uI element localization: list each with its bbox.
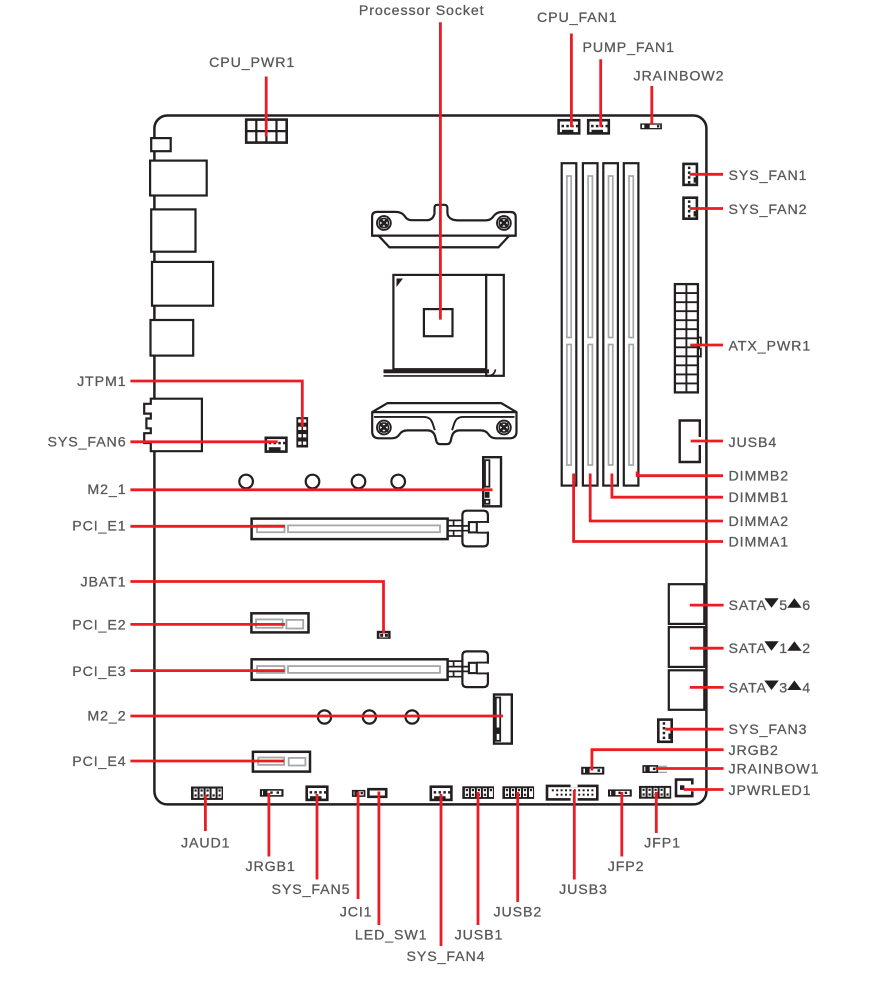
wire JBAT1 — [130, 582, 383, 634]
connector JUSB3 — [547, 784, 597, 801]
wire DIMMB2 — [637, 472, 723, 476]
svg-text:DIMMA1: DIMMA1 — [729, 535, 790, 551]
svg-text:CPU_FAN1: CPU_FAN1 — [537, 10, 618, 26]
wire SATA34 — [690, 686, 724, 689]
svg-text:PCI_E4: PCI_E4 — [72, 754, 126, 770]
PCI_E3 latch — [462, 651, 488, 687]
wire JAUD1 — [204, 795, 207, 831]
svg-text:JCI1: JCI1 — [340, 905, 373, 921]
connector JRAINBOW1 — [642, 765, 667, 773]
svg-text:2: 2 — [802, 641, 811, 657]
connector JPWRLED1 — [676, 780, 692, 797]
wire DIMMB1 — [612, 474, 723, 498]
svg-text:ATX_PWR1: ATX_PWR1 — [729, 338, 812, 354]
screw left (top bracket) — [377, 216, 391, 230]
svg-text:DIMMB1: DIMMB1 — [729, 490, 790, 506]
wire JRAINBOW1 — [656, 767, 724, 770]
svg-text:PCI_E1: PCI_E1 — [72, 519, 126, 535]
connector JFP2 — [608, 789, 632, 796]
cpu bottom bracket — [372, 403, 516, 444]
connector CPU_FAN1 — [559, 120, 580, 133]
svg-text:JUSB1: JUSB1 — [455, 927, 504, 943]
label SATA34 — [729, 680, 811, 696]
wire JRGB1 — [267, 793, 270, 857]
svg-text:JRAINBOW2: JRAINBOW2 — [634, 68, 725, 84]
svg-text:JUSB3: JUSB3 — [559, 882, 608, 898]
svg-text:JFP1: JFP1 — [644, 836, 681, 852]
svg-text:SYS_FAN3: SYS_FAN3 — [729, 722, 808, 738]
svg-text:PCI_E3: PCI_E3 — [72, 664, 126, 680]
label SATA56 — [729, 598, 811, 614]
connector JUSB2 — [502, 786, 534, 799]
socket bottom rail — [384, 369, 490, 373]
connector SYS_FAN6 — [266, 438, 287, 452]
io port small — [151, 138, 171, 151]
wire SYS_FAN6 — [130, 440, 277, 443]
svg-text:JRAINBOW1: JRAINBOW1 — [729, 762, 820, 778]
wire PCI_E3 — [130, 669, 284, 672]
wire SYS_FAN2 — [690, 207, 724, 210]
cpu socket — [384, 275, 504, 376]
svg-text:3: 3 — [779, 680, 788, 696]
connector JRGB1 — [260, 789, 284, 797]
svg-text:M2_1: M2_1 — [87, 482, 126, 498]
jumper JBAT1 — [377, 631, 391, 639]
wire JRAINBOW2 — [650, 86, 653, 125]
wire SYS_FAN1 — [690, 173, 724, 176]
svg-text:6: 6 — [802, 598, 811, 614]
DIMM slot DIMMB2 — [624, 163, 639, 485]
connector JUSB4 — [680, 421, 700, 463]
svg-text:PUMP_FAN1: PUMP_FAN1 — [583, 40, 675, 56]
wire Processor Socket — [439, 22, 442, 319]
wire SYS_FAN5 — [316, 794, 319, 880]
svg-text:JBAT1: JBAT1 — [80, 575, 126, 591]
svg-text:PCI_E2: PCI_E2 — [72, 617, 126, 633]
cpu top bracket — [372, 205, 516, 248]
wire PUMP_FAN1 — [599, 59, 602, 127]
svg-text:4: 4 — [802, 680, 811, 696]
screw right (top bracket) — [497, 216, 511, 230]
connector M2_2 — [494, 695, 512, 744]
io port lan — [150, 161, 207, 196]
connector SYS_FAN4 — [431, 787, 452, 800]
svg-text:DIMMB2: DIMMB2 — [729, 469, 790, 485]
wire SATA12 — [690, 647, 724, 650]
connector SYS_FAN2 — [684, 198, 698, 219]
connector JUSB1 — [462, 786, 494, 799]
DIMM slot DIMMB1 — [603, 163, 618, 485]
M2_1 standoff holes — [239, 475, 405, 489]
connector CPU_PWR1 — [246, 120, 287, 143]
wire JFP2 — [620, 792, 623, 857]
connector SYS_FAN3 — [658, 720, 672, 742]
wire M2_2 — [130, 715, 503, 718]
PCI_E1 latch — [462, 511, 488, 547]
wire SYS_FAN3 — [665, 728, 723, 731]
wire JPWRLED1 — [684, 788, 724, 791]
connector JCI1 — [352, 790, 366, 797]
connector JRGB2 — [581, 767, 604, 775]
wire JTPM1 — [130, 381, 302, 427]
svg-text:SYS_FAN1: SYS_FAN1 — [729, 168, 808, 184]
svg-text:JPWRLED1: JPWRLED1 — [729, 783, 812, 799]
wire SYS_FAN4 — [440, 794, 443, 946]
connector SYS_FAN5 — [307, 787, 328, 800]
svg-text:SYS_FAN5: SYS_FAN5 — [272, 882, 351, 898]
wire PCI_E1 — [130, 525, 285, 528]
svg-text:LED_SW1: LED_SW1 — [355, 927, 428, 943]
svg-text:CPU_PWR1: CPU_PWR1 — [209, 55, 295, 71]
wire JCI1 — [357, 792, 360, 899]
screw right (bottom bracket) — [497, 421, 511, 435]
switch LED_SW1 — [368, 789, 386, 797]
io port usb2 — [152, 262, 213, 306]
DIMM slot DIMMA2 — [583, 163, 598, 485]
connector SYS_FAN1 — [684, 164, 698, 185]
red callout lines — [130, 22, 723, 946]
wire JRGB2 — [592, 750, 724, 771]
PCIe x16 slot PCI_E1 — [252, 511, 490, 547]
connector JAUD1 — [191, 787, 223, 800]
connector PUMP_FAN1 — [588, 120, 609, 133]
svg-text:JAUD1: JAUD1 — [181, 836, 230, 852]
socket center square — [424, 309, 453, 336]
svg-text:JRGB1: JRGB1 — [245, 859, 295, 875]
wire PCI_E4 — [130, 760, 284, 763]
connector JTPM1 — [296, 417, 308, 447]
PCIe x16 slot PCI_E3 — [252, 651, 490, 687]
svg-text:JTPM1: JTPM1 — [77, 374, 126, 390]
wire CPU_PWR1 — [265, 77, 268, 137]
svg-text:JUSB4: JUSB4 — [729, 435, 778, 451]
wire CPU_FAN1 — [570, 34, 573, 128]
connector M2_1 — [483, 457, 501, 506]
socket pin1 triangle — [397, 279, 404, 288]
svg-text:SATA: SATA — [729, 641, 768, 657]
svg-text:SATA: SATA — [729, 598, 768, 614]
connector JRAINBOW2 — [640, 123, 662, 129]
wire JUSB3 — [573, 790, 576, 880]
svg-text:SYS_FAN2: SYS_FAN2 — [729, 202, 808, 218]
wire DIMMA1 — [574, 474, 723, 542]
io port usb1 — [151, 209, 195, 251]
SATA ports 1/2 — [669, 627, 705, 667]
svg-text:SATA: SATA — [729, 680, 768, 696]
wire JUSB1 — [477, 792, 480, 925]
svg-text:SYS_FAN4: SYS_FAN4 — [407, 949, 486, 965]
wire LED_SW1 — [377, 792, 380, 926]
wire DIMMA2 — [590, 474, 723, 522]
SATA ports 3/4 — [669, 670, 705, 710]
connector JFP1 — [639, 786, 671, 799]
label SATA12 — [729, 641, 811, 657]
M2_2 standoff holes — [318, 710, 419, 723]
PCIe x1 slot PCI_E2 — [251, 613, 308, 632]
wire JFP1 — [655, 792, 658, 833]
connector ATX_PWR1 — [675, 284, 701, 392]
wire JUSB4 — [691, 440, 723, 443]
io port usb3 — [151, 320, 194, 356]
wire M2_1 — [130, 488, 492, 491]
svg-text:SYS_FAN6: SYS_FAN6 — [48, 435, 127, 451]
PCIe x1 slot PCI_E4 — [253, 752, 310, 772]
wire PCI_E2 — [130, 623, 285, 626]
wire SATA56 — [690, 604, 724, 607]
svg-text:JFP2: JFP2 — [608, 859, 645, 875]
io port audio — [144, 399, 202, 452]
wire JUSB2 — [516, 792, 519, 902]
wire ATX_PWR1 — [690, 344, 723, 347]
SATA ports 5/6 — [669, 584, 705, 624]
svg-text:JRGB2: JRGB2 — [729, 743, 779, 759]
motherboard outline — [154, 116, 706, 805]
DIMM slot DIMMA1 — [562, 163, 577, 485]
svg-text:Processor Socket: Processor Socket — [359, 3, 485, 19]
screw left (bottom bracket) — [377, 421, 391, 435]
svg-text:5: 5 — [779, 598, 788, 614]
svg-text:JUSB2: JUSB2 — [493, 905, 542, 921]
svg-text:DIMMA2: DIMMA2 — [729, 514, 790, 530]
svg-text:M2_2: M2_2 — [87, 709, 126, 725]
svg-text:1: 1 — [779, 641, 788, 657]
